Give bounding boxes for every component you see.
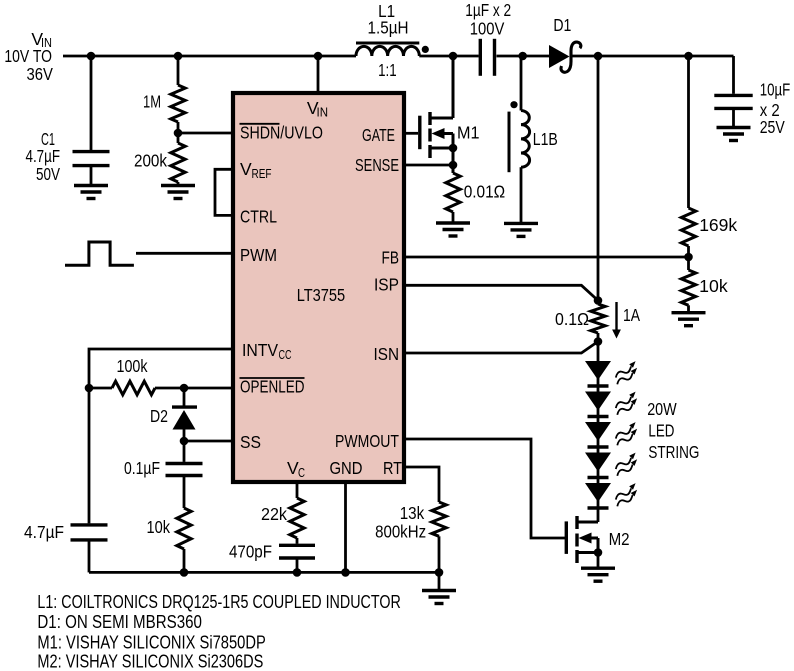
svg-text:100V: 100V: [470, 19, 505, 39]
node rail junction 169k: [684, 52, 693, 61]
label caption line 3: [37, 633, 265, 653]
svg-text:LED: LED: [648, 421, 674, 441]
svg-text:STRING: STRING: [648, 442, 699, 462]
resistor 200k: [134, 133, 185, 186]
svg-text:4.7µF: 4.7µF: [24, 522, 64, 542]
svg-text:D1: ON SEMI MBRS360: D1: ON SEMI MBRS360: [37, 612, 202, 632]
svg-text:LT3755: LT3755: [297, 285, 346, 305]
label 1A current arrow: [612, 302, 640, 339]
wire VREF-CTRL loop: [215, 169, 233, 215]
svg-text:200k: 200k: [134, 151, 167, 171]
ground 200k: [161, 186, 195, 199]
capacitor 470pF: [229, 542, 315, 573]
resistor 1M: [143, 56, 185, 133]
svg-text:SS: SS: [240, 432, 261, 452]
svg-text:1A: 1A: [623, 305, 640, 325]
svg-text:0.1Ω: 0.1Ω: [555, 309, 589, 329]
svg-text:CTRL: CTRL: [240, 207, 277, 227]
node SS junction: [180, 437, 189, 446]
pin label VIN: [307, 98, 328, 120]
resistor 169k: [681, 56, 737, 257]
pin label ISP: [374, 275, 399, 295]
ground M2: [581, 568, 615, 581]
diode D2: [150, 388, 197, 441]
wire OPENLED: [184, 387, 233, 390]
wire SENSE: [404, 164, 453, 167]
svg-text:13k: 13k: [400, 503, 425, 523]
wire rail to sense resistor: [597, 56, 600, 301]
inductor L1: [356, 1, 419, 80]
wire SS: [184, 440, 233, 443]
pin label OPENLED: [240, 377, 305, 397]
pin label PWM: [240, 245, 277, 265]
label caption line 1: [37, 592, 400, 612]
node INTVCC/100k junction: [85, 384, 94, 393]
capacitor 10uF x 2: [714, 56, 790, 137]
svg-text:D2: D2: [150, 406, 168, 426]
pin label RT: [383, 458, 402, 478]
transistor M1: [420, 56, 480, 173]
svg-text:GND: GND: [330, 458, 363, 478]
svg-text:169k: 169k: [699, 215, 737, 235]
wire rail L1 to cap: [419, 55, 478, 58]
pin label GATE: [362, 125, 395, 145]
wire ISP: [404, 285, 598, 300]
svg-text:25V: 25V: [760, 117, 785, 137]
svg-text:ISN: ISN: [374, 344, 400, 364]
svg-text:PWM: PWM: [240, 245, 277, 265]
node ISP junction: [594, 296, 603, 305]
node rail junction C1: [87, 52, 96, 61]
node bottom junction 13k: [435, 568, 444, 577]
svg-text:INTV: INTV: [242, 340, 278, 360]
node SENSE junction: [449, 161, 458, 170]
pin label SENSE: [355, 155, 399, 175]
label 20W LED STRING: [647, 399, 699, 462]
ground C1: [74, 186, 108, 199]
wire bottom ground rail: [89, 571, 439, 574]
pin label VC: [287, 458, 305, 480]
resistor 13k: [375, 502, 446, 572]
node VIN input label: [4, 29, 53, 84]
svg-text:1.5µH: 1.5µH: [368, 18, 409, 38]
svg-text:22k: 22k: [261, 504, 287, 524]
svg-text:SENSE: SENSE: [355, 155, 399, 175]
node rail junction VIN pin: [314, 52, 323, 61]
wire PWMOUT: [404, 439, 565, 538]
node SHDN divider junction: [174, 129, 183, 138]
svg-text:OPENLED: OPENLED: [240, 377, 305, 397]
pin label VREF: [240, 159, 272, 181]
wire GATE: [404, 132, 418, 135]
resistor 22k: [261, 482, 304, 544]
capacitor 0.1uF: [124, 441, 203, 508]
svg-text:REF: REF: [252, 166, 272, 181]
svg-text:M2: M2: [609, 529, 630, 549]
pin label PWMOUT: [335, 431, 399, 451]
transistor M2: [566, 516, 629, 563]
svg-text:1:1: 1:1: [378, 60, 397, 80]
svg-text:1µF x 2: 1µF x 2: [465, 0, 511, 20]
ground 0.01ohm: [436, 223, 470, 236]
node ISN junction: [594, 337, 603, 346]
svg-text:RT: RT: [383, 458, 402, 478]
resistor 0.1ohm: [555, 304, 605, 342]
node L1B phase dot: [510, 101, 517, 108]
svg-text:CC: CC: [279, 347, 292, 362]
svg-text:M1: M1: [457, 123, 480, 143]
node rail junction R-1M: [174, 52, 183, 61]
LED D6 of string: [585, 453, 637, 478]
node rail junction M1 drain: [449, 52, 458, 61]
wire INTVCC: [89, 349, 233, 388]
wire ISN: [404, 342, 598, 354]
node rail junction LED branch: [594, 52, 603, 61]
ground L1B: [504, 223, 538, 236]
node FB junction: [684, 253, 693, 262]
wire VIN pin: [317, 56, 320, 93]
wire LED string: [597, 342, 600, 523]
inductor L1B: [509, 56, 558, 223]
op-amp U1 LT3755 body: [233, 93, 404, 482]
node M2 source junction: [594, 548, 603, 557]
pin label INTVCC: [242, 340, 292, 362]
capacitor 1uF x 2: [465, 0, 511, 76]
svg-text:FB: FB: [382, 248, 400, 268]
svg-text:50V: 50V: [36, 164, 60, 184]
svg-text:SHDN/UVLO: SHDN/UVLO: [240, 123, 323, 143]
svg-text:10k: 10k: [699, 276, 728, 296]
ground 10k feedback: [672, 313, 706, 326]
pin label ISN: [374, 344, 400, 364]
wire FB: [404, 256, 689, 259]
svg-text:10k: 10k: [147, 517, 171, 537]
svg-text:10V TO: 10V TO: [4, 46, 52, 66]
LED D5 of string: [585, 422, 637, 447]
svg-text:20W: 20W: [647, 399, 677, 419]
svg-text:470pF: 470pF: [229, 542, 272, 562]
node L1 phase dot: [422, 46, 429, 53]
svg-text:ISP: ISP: [374, 275, 399, 295]
resistor 100k: [89, 356, 184, 395]
svg-text:36V: 36V: [27, 64, 54, 84]
pin label SS: [240, 432, 261, 452]
pin label FB: [382, 248, 400, 268]
wire PWM: [136, 252, 233, 255]
node bottom junction 470pF: [293, 568, 302, 577]
node M1 source junction: [449, 144, 458, 153]
svg-text:10µF: 10µF: [760, 79, 791, 99]
svg-text:L1: COILTRONICS DRQ125-1R5 COU: L1: COILTRONICS DRQ125-1R5 COUPLED INDUC…: [37, 592, 400, 612]
svg-text:0.01Ω: 0.01Ω: [464, 182, 506, 202]
wire top rail VIN: [63, 55, 356, 58]
ground RT: [422, 591, 456, 604]
LED D7 of string: [585, 483, 637, 508]
svg-text:PWMOUT: PWMOUT: [335, 431, 399, 451]
svg-text:M1: VISHAY SILICONIX Si7850DP: M1: VISHAY SILICONIX Si7850DP: [37, 633, 265, 653]
svg-text:L1B: L1B: [533, 129, 558, 149]
node OPENLED junction: [180, 384, 189, 393]
wire SHDN: [178, 132, 233, 135]
resistor 10k feedback: [681, 257, 728, 313]
node rail junction L1B: [518, 52, 527, 61]
svg-text:1M: 1M: [143, 92, 161, 112]
wire RT: [404, 467, 439, 502]
svg-text:D1: D1: [553, 15, 571, 35]
pin label GND: [330, 458, 363, 478]
svg-text:GATE: GATE: [362, 125, 395, 145]
wire rail D1 to end: [571, 55, 734, 58]
node bottom junction 10k: [180, 568, 189, 577]
pin label SHDN/UVLO: [240, 123, 324, 143]
node PWM pulse source symbol: [65, 242, 134, 265]
wire GND pin: [344, 482, 347, 572]
resistor 0.01ohm: [446, 173, 505, 223]
svg-text:IN: IN: [317, 105, 329, 120]
wire rail cap to D1: [497, 55, 550, 58]
label LT3755: [297, 285, 346, 305]
svg-text:M2: VISHAY SILICONIX Si2306DS: M2: VISHAY SILICONIX Si2306DS: [37, 652, 263, 671]
svg-text:V: V: [240, 159, 252, 179]
resistor 10k soft-start: [147, 508, 192, 572]
LED D3 of string: [585, 361, 637, 386]
wire M2 source to ground: [597, 553, 600, 569]
diode D1: [549, 15, 581, 72]
LED D4 of string: [585, 392, 637, 417]
label caption line 2: [37, 612, 202, 632]
svg-text:C: C: [298, 465, 305, 480]
svg-text:0.1µF: 0.1µF: [124, 458, 160, 478]
node bottom junction GND: [341, 568, 350, 577]
svg-text:800kHz: 800kHz: [375, 522, 426, 542]
svg-text:4.7µF: 4.7µF: [26, 146, 61, 166]
capacitor 4.7uF INTVCC: [24, 388, 108, 572]
wire 13k to ground: [438, 572, 441, 590]
ground 10uF: [717, 128, 751, 141]
label caption line 4: [37, 652, 263, 671]
capacitor C1: [26, 56, 110, 186]
svg-text:100k: 100k: [117, 356, 148, 376]
pin label CTRL: [240, 207, 277, 227]
